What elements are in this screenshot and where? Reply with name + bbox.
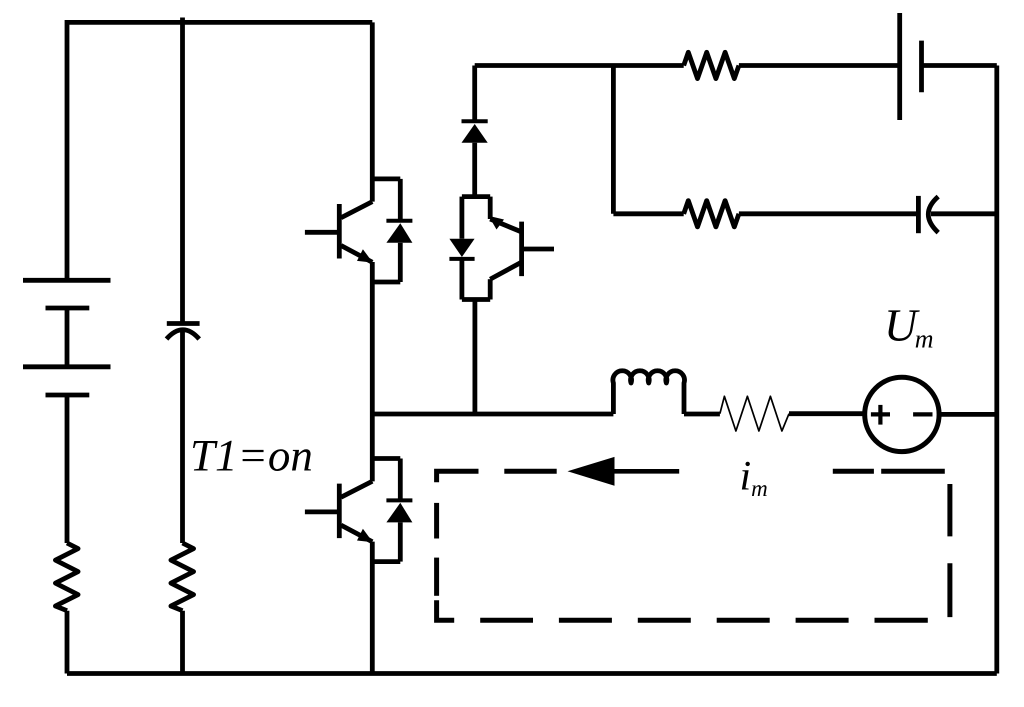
resistor R3 <box>684 52 739 78</box>
wire B2 to right corner <box>922 63 997 68</box>
transistor Q1 <box>305 202 373 263</box>
wire L1 to Rm <box>684 412 720 417</box>
wire battery to R1 <box>65 395 70 543</box>
battery B2 <box>900 13 922 120</box>
resistor Rm thin <box>720 396 789 431</box>
dashed loop top-left corner <box>437 471 479 482</box>
current arrow <box>568 457 680 486</box>
capacitor C1 <box>167 324 200 340</box>
wire Q2 to mid node <box>472 300 477 415</box>
wire top-left horizontal <box>67 20 372 25</box>
inductor L1 <box>613 371 685 414</box>
dashed loop bottom-left corner <box>437 600 455 620</box>
transistor Q3 <box>305 481 373 542</box>
wire mid node horizontal <box>372 412 613 417</box>
wire D2 to Q2 <box>472 143 477 197</box>
resistor R1 <box>55 543 78 611</box>
battery B1 <box>23 280 111 395</box>
wire top-right horizontal left part <box>475 63 684 68</box>
svg-text:Um: Um <box>884 299 934 353</box>
wire second row left part <box>613 211 683 216</box>
dashed loop top dash <box>504 469 556 474</box>
wire junction vertical x=613 <box>611 66 616 214</box>
resistor R2 <box>171 543 194 611</box>
diode D4 <box>372 459 412 562</box>
dashed loop top dashes right <box>833 469 874 474</box>
wire Q3 emitter to bottom <box>370 542 375 674</box>
wire middle branch top vertical <box>472 66 477 120</box>
wire Rm to source <box>789 411 865 416</box>
wire left branch upper vertical <box>65 20 70 280</box>
wire cap branch upper vertical <box>180 18 185 324</box>
diode D1 <box>372 179 412 282</box>
resistor R4 <box>684 201 739 227</box>
wire R1 to bottom <box>65 611 70 674</box>
dashed loop right dashes <box>947 484 952 536</box>
wire right rail vertical <box>994 66 999 674</box>
wire R4 to C2 <box>739 211 919 216</box>
diode D3 <box>449 197 474 300</box>
wire half-bridge top vertical <box>370 22 375 201</box>
wire source to right rail <box>939 412 997 417</box>
diode D2 <box>462 121 488 142</box>
wire R3 to battery B2 <box>739 63 900 68</box>
dashed loop left dashes <box>434 503 439 539</box>
wire R2 to bottom <box>180 611 185 674</box>
wire C1 to R2 <box>180 331 185 543</box>
wire half-bridge mid vertical <box>370 262 375 481</box>
svg-text:im: im <box>740 454 768 502</box>
voltage source Um circle <box>865 377 939 451</box>
wire bottom horizontal <box>67 671 997 676</box>
dashed loop bottom dashes <box>480 618 533 623</box>
transistor Q2 <box>462 197 554 300</box>
capacitor C2 <box>918 196 938 233</box>
svg-text:T1=on: T1=on <box>190 431 313 481</box>
wire C2 to right rail <box>931 211 997 216</box>
